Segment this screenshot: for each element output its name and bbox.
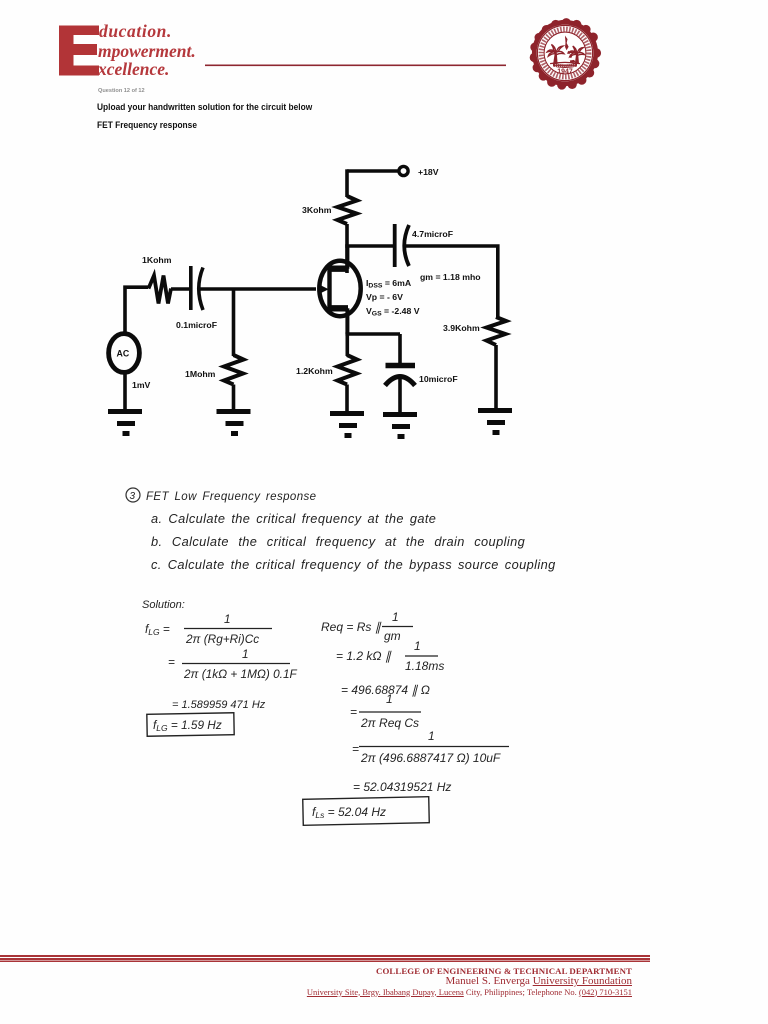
wire gate line: [199, 287, 316, 291]
wire drain vertical: [345, 224, 349, 273]
wire source down: [345, 334, 349, 356]
svg-text:2π (496.6887417 Ω) 10uF: 2π (496.6887417 Ω) 10uF: [360, 751, 501, 765]
svg-text:c. Calculate the critical freq: c. Calculate the critical frequency of t…: [151, 557, 556, 572]
capacitor 4.7microF: [395, 224, 409, 267]
svg-text:FET Low Frequency response: FET Low Frequency response: [146, 491, 316, 503]
svg-text:fLG =: fLG =: [145, 622, 170, 637]
wire AC down: [123, 374, 127, 411]
svg-text:fLs = 52.04 Hz: fLs = 52.04 Hz: [312, 805, 386, 820]
supply terminal +18V: [399, 166, 408, 175]
resistor 1Kohm: [149, 276, 172, 304]
resistor 3.9Kohm: [487, 317, 507, 345]
source AC: [109, 334, 140, 373]
cart: [570, 60, 576, 63]
wire source node: [345, 332, 400, 336]
resistor 1Mohm: [224, 355, 244, 385]
seal: [525, 13, 605, 93]
wire load to ground: [494, 345, 498, 409]
svg-text:1: 1: [392, 610, 399, 624]
svg-text:= 1.589959 471 Hz: = 1.589959 471 Hz: [172, 699, 266, 711]
svg-text:= 52.04319521 Hz: = 52.04319521 Hz: [353, 780, 451, 794]
big E logo: [59, 26, 99, 76]
svg-text:1.18ms: 1.18ms: [405, 659, 444, 673]
question meta: [98, 88, 145, 94]
ground source: [330, 414, 364, 436]
svg-text:= 1.2 kΩ ∥: = 1.2 kΩ ∥: [336, 649, 392, 663]
svg-text:2π Req Cs: 2π Req Cs: [360, 716, 419, 730]
svg-text:3: 3: [130, 491, 136, 502]
capacitor 0.1microF: [191, 266, 203, 310]
wire supply horizontal: [347, 169, 399, 173]
svg-text:Solution:: Solution:: [142, 599, 185, 611]
svg-text:=: =: [350, 705, 357, 719]
banner: [553, 63, 578, 68]
ground load: [478, 411, 512, 433]
svg-text:1: 1: [242, 647, 249, 661]
wire to cap: [171, 287, 190, 291]
svg-text:1: 1: [224, 612, 231, 626]
PH map: [565, 36, 568, 49]
wire cap to load: [405, 246, 498, 317]
ground AC: [108, 412, 142, 434]
wire 1M to ground: [232, 385, 236, 411]
ground line: [550, 62, 580, 63]
right column math: [303, 610, 509, 825]
script words: [97, 21, 196, 79]
wire 1.2K to ground: [345, 385, 349, 413]
capacitor 10microF: [385, 334, 415, 413]
svg-text:2π (Rg+Ri)Cc: 2π (Rg+Ri)Cc: [185, 632, 259, 646]
svg-text:=: =: [352, 742, 359, 756]
svg-text:2π (1kΩ + 1MΩ) 0.1F: 2π (1kΩ + 1MΩ) 0.1F: [183, 667, 298, 681]
svg-text:Req = Rs ∥: Req = Rs ∥: [321, 620, 382, 634]
wire AC up: [125, 287, 148, 335]
wire supply vertical: [345, 169, 349, 197]
svg-text:1: 1: [414, 639, 421, 653]
svg-text:fLG = 1.59 Hz: fLG = 1.59 Hz: [153, 718, 222, 733]
ground 1M: [217, 412, 251, 434]
svg-text:=: =: [168, 655, 175, 669]
JFET Q1: [318, 247, 361, 334]
svg-text:1: 1: [386, 692, 393, 706]
ground bypass: [383, 415, 417, 437]
svg-text:a. Calculate the critical freq: a. Calculate the critical frequency at t…: [151, 511, 436, 526]
wire gate junction: [232, 289, 236, 356]
svg-text:gm: gm: [384, 629, 401, 643]
svg-text:1: 1: [428, 729, 435, 743]
resistor 1.2Kohm: [338, 355, 358, 385]
svg-text:b. Calculate the critical freq: b. Calculate the critical frequency at t…: [151, 534, 525, 549]
resistor 3Kohm: [338, 196, 358, 224]
right palm: [575, 52, 579, 63]
left column math: [145, 612, 298, 736]
left palm: [553, 51, 557, 63]
red divider line: [205, 65, 506, 67]
wire drain to cap: [345, 244, 393, 248]
